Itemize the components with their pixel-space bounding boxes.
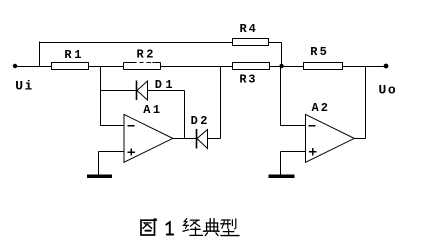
wire junction to R5 [282, 66, 304, 68]
svg-text:A1: A1 [143, 103, 160, 117]
wire junction down to A2 inverting input [280, 67, 282, 126]
resistor R3 [233, 63, 270, 70]
wire A1 plus input down to ground [98, 152, 100, 175]
resistor R1 [52, 63, 89, 70]
node Ui input terminal [13, 64, 17, 68]
caption char 经 [183, 219, 203, 236]
node Uo output terminal [384, 64, 389, 69]
svg-text:Ui: Ui [15, 79, 32, 94]
caption char 型 [221, 219, 239, 236]
svg-text:R2: R2 [137, 48, 154, 62]
op-amp A1 plus sign [128, 151, 136, 153]
svg-text:A2: A2 [312, 101, 329, 115]
wire A1 inverting input [101, 125, 125, 127]
op-amp A2 plus sign [309, 151, 317, 153]
diode D2 cathode bar [196, 129, 198, 149]
resistor R2 (top border dash-dot) [124, 63, 161, 70]
caption char 1 [166, 222, 173, 234]
caption char 典 [204, 219, 219, 236]
op-amp A1 triangle [124, 114, 173, 162]
wire A2 plus input down to ground [280, 152, 282, 175]
svg-text:R5: R5 [310, 45, 327, 59]
wire summing node vertical to A1 inverting input [100, 67, 102, 126]
ground bar at A2 [269, 175, 295, 179]
wire A2 non-inverting input [281, 151, 306, 153]
svg-text:R1: R1 [64, 48, 81, 62]
wire D1 anode to corner [148, 90, 185, 92]
op-amp A2 triangle [306, 114, 355, 162]
resistor R5 [304, 63, 343, 70]
wire corner up to main wire [220, 67, 222, 139]
svg-text:R4: R4 [240, 22, 256, 36]
wire A1 non-inverting input [99, 151, 125, 153]
wire R5 to output node [343, 66, 387, 68]
wire up from input wire to top rail [39, 42, 41, 67]
diode D1 triangle [137, 81, 148, 100]
ground bar at A1 [87, 175, 112, 179]
wire output node down to A2 output [365, 67, 367, 139]
svg-text:R3: R3 [239, 72, 255, 86]
wire R3 right to junction node [270, 66, 282, 68]
wire D1 corner down to A1 output [184, 91, 186, 139]
wire corner down to junction node [281, 43, 283, 67]
wire R4 right to corner [269, 42, 282, 44]
wire D1 tap from summing node [101, 90, 137, 92]
caption char 图 [141, 218, 157, 235]
resistor R4 [233, 39, 269, 46]
op-amp A1 minus sign [128, 125, 135, 127]
wire input node to R1 [15, 66, 52, 68]
wire A2 inverting input [281, 125, 306, 127]
wire R2 to R3 [161, 66, 233, 68]
wire A2 output [354, 138, 366, 140]
wire D2 to corner [208, 138, 221, 140]
node junction dot R3/R4/R5/A2 [279, 64, 283, 68]
diode D1 cathode bar [136, 81, 138, 101]
svg-text:Uo: Uo [379, 83, 396, 98]
diode D2 triangle [197, 130, 208, 149]
svg-text:D2: D2 [191, 114, 208, 128]
wire R1 to R2 [88, 66, 124, 68]
op-amp A2 minus sign [309, 125, 316, 127]
wire top rail to R4 left [39, 42, 233, 44]
wire A1 output to D2 [173, 138, 196, 140]
